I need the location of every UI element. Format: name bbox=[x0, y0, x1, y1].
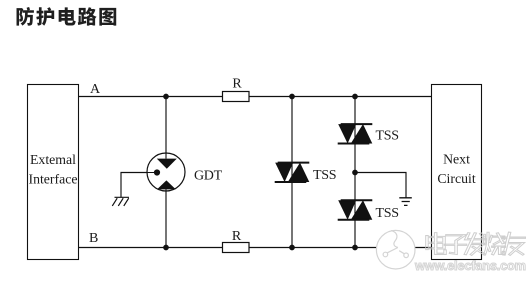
svg-text:B: B bbox=[89, 231, 98, 246]
svg-text:TSS: TSS bbox=[376, 206, 399, 221]
svg-text:TSS: TSS bbox=[376, 128, 399, 143]
svg-text:GDT: GDT bbox=[194, 168, 223, 183]
svg-text:Interface: Interface bbox=[28, 172, 77, 187]
svg-text:R: R bbox=[232, 229, 242, 244]
svg-text:A: A bbox=[90, 82, 101, 97]
svg-text:Extemal: Extemal bbox=[30, 152, 76, 167]
svg-text:Circuit: Circuit bbox=[437, 171, 475, 186]
svg-text:www.elecfans.com: www.elecfans.com bbox=[414, 258, 526, 273]
svg-text:R: R bbox=[232, 77, 242, 92]
svg-text:Next: Next bbox=[443, 152, 470, 167]
svg-text:TSS: TSS bbox=[313, 168, 336, 183]
